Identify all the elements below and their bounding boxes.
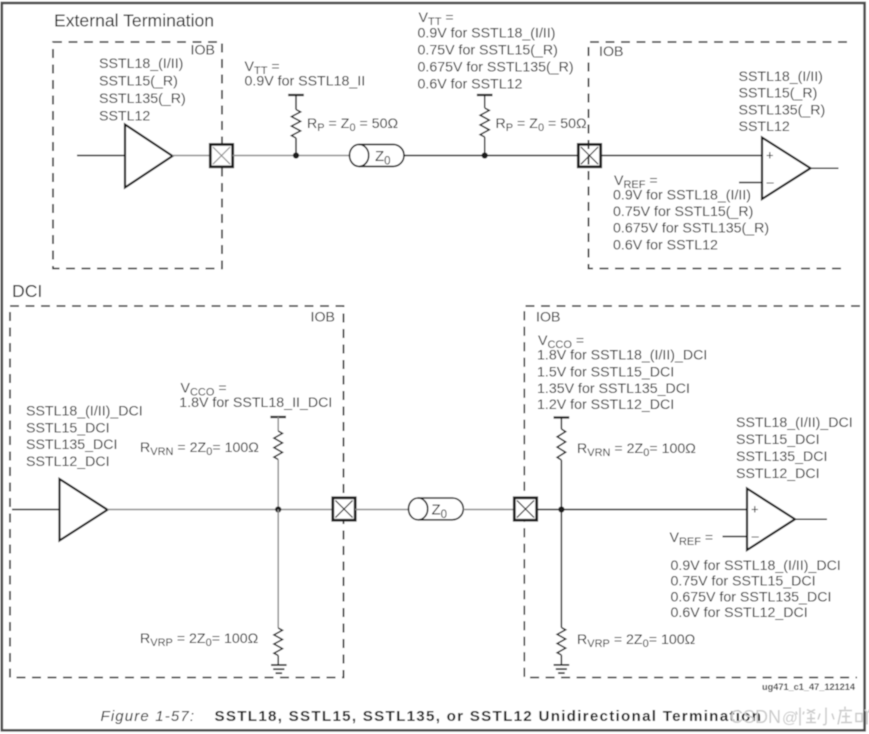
- input receiver buffer (DCI): [747, 489, 795, 551]
- wire: DCI driver input: [12, 509, 60, 511]
- IOB box (receiver, external termination): [589, 42, 848, 269]
- svg-text:+: +: [766, 148, 774, 163]
- wire: RVRP to ground (left): [277, 656, 279, 666]
- wire: node down to RVRP (right): [560, 510, 562, 628]
- resistor RP (left pull-up): [292, 110, 301, 139]
- svg-text:0.675V for SSTL135(_R): 0.675V for SSTL135(_R): [613, 221, 769, 237]
- IOB box (driver, DCI): [10, 306, 344, 678]
- ground (left DCI): [271, 664, 287, 666]
- wire: VCCO rail to RVRN (right): [560, 418, 562, 430]
- output driver buffer (DCI): [60, 479, 108, 541]
- VCCO rail (right DCI): [554, 416, 570, 418]
- svg-text:SSTL18_(I/II): SSTL18_(I/II): [99, 56, 183, 72]
- svg-text:SSTL135(_R): SSTL135(_R): [739, 103, 826, 119]
- VCCO rail (left DCI): [270, 416, 286, 418]
- pad (DCI receiver IOB): [514, 498, 536, 520]
- transmission line Z0 (bottom): [418, 498, 463, 520]
- wire: VREF stub to minus input (DCI): [723, 536, 748, 538]
- wire: resistor RP to line node: [295, 138, 297, 156]
- svg-text:+: +: [751, 502, 759, 517]
- svg-text:IOB: IOB: [311, 310, 335, 326]
- svg-text:SSTL12: SSTL12: [99, 109, 150, 125]
- svg-text:IOB: IOB: [599, 44, 623, 60]
- wire: pad to receiver input: [601, 155, 762, 157]
- svg-text:0.9V for SSTL18_(I/II)_DCI: 0.9V for SSTL18_(I/II)_DCI: [671, 558, 841, 574]
- resistor RP (right pull-up): [480, 108, 489, 137]
- wire: VTT rail to resistor RP (right): [484, 95, 486, 108]
- svg-text:1.5V for SSTL15_DCI: 1.5V for SSTL15_DCI: [537, 365, 674, 381]
- pad (driver IOB): [210, 144, 232, 166]
- input receiver buffer (top): [762, 138, 811, 200]
- watermark glyph 小: [818, 708, 834, 725]
- svg-text:Figure 1-57:: Figure 1-57:: [101, 708, 196, 725]
- svg-text:SSTL12_DCI: SSTL12_DCI: [26, 454, 110, 470]
- svg-text:DCI: DCI: [12, 281, 42, 301]
- svg-text:ug471_c1_47_121214: ug471_c1_47_121214: [762, 682, 856, 692]
- wire: driver input: [77, 155, 125, 157]
- wire: VCCO rail to RVRN (left): [277, 417, 279, 431]
- svg-text:0.675V for SSTL135(_R): 0.675V for SSTL135(_R): [418, 60, 574, 76]
- svg-text:SSTL15_DCI: SSTL15_DCI: [736, 432, 820, 448]
- wire: receiver output (DCI): [795, 518, 827, 520]
- wire: DCI buffer output to node: [108, 509, 334, 511]
- svg-text:–: –: [767, 175, 775, 190]
- node: DCI receiver split junction: [558, 506, 564, 512]
- output driver buffer (External Termination): [125, 125, 173, 188]
- wire: node down to RVRP (left): [277, 510, 279, 629]
- watermark glyph 庄: [838, 707, 852, 725]
- svg-text:0.9V for SSTL18_II: 0.9V for SSTL18_II: [245, 74, 366, 90]
- wire: receiver output (top): [811, 167, 839, 169]
- wire: VREF stub to minus input: [739, 182, 762, 184]
- wire: pad to receiver (bottom main): [537, 509, 747, 511]
- svg-text:SSTL15(_R): SSTL15(_R): [99, 74, 178, 90]
- svg-text:SSTL18_(I/II)_DCI: SSTL18_(I/II)_DCI: [736, 415, 853, 431]
- svg-text:1.8V for SSTL18_II_DCI: 1.8V for SSTL18_II_DCI: [179, 395, 332, 411]
- wire: RVRN to node (left DCI): [277, 460, 279, 510]
- transmission line Z0 (top): [359, 144, 404, 166]
- pad (receiver IOB, top): [578, 144, 600, 166]
- svg-text:0.75V for SSTL15_DCI: 0.75V for SSTL15_DCI: [671, 574, 816, 590]
- svg-text:0.9V for SSTL18_(I/II): 0.9V for SSTL18_(I/II): [613, 188, 751, 204]
- svg-text:External Termination: External Termination: [54, 11, 214, 31]
- svg-text:SSTL18, SSTL15, SSTL135, or SS: SSTL18, SSTL15, SSTL135, or SSTL12 Unidi…: [215, 708, 763, 725]
- resistor RVRP (right DCI): [557, 628, 565, 656]
- svg-text:SSTL135_DCI: SSTL135_DCI: [736, 449, 827, 465]
- svg-text:SSTL135(_R): SSTL135(_R): [99, 91, 186, 107]
- svg-text:0.6V for SSTL12_DCI: 0.6V for SSTL12_DCI: [671, 605, 808, 621]
- IOB box (driver, external termination): [53, 42, 222, 269]
- svg-text:1.8V for SSTL18_(I/II)_DCI: 1.8V for SSTL18_(I/II)_DCI: [537, 348, 707, 364]
- svg-text:IOB: IOB: [191, 43, 215, 59]
- svg-text:0.675V for SSTL135_DCI: 0.675V for SSTL135_DCI: [671, 589, 832, 605]
- wire: resistor to node (right): [484, 137, 486, 156]
- wire: pad to termination node: [233, 155, 350, 157]
- node: DCI driver split junction: [275, 506, 281, 512]
- wire: Z0 to right termination node: [404, 155, 579, 157]
- svg-text:0.75V for SSTL15(_R): 0.75V for SSTL15(_R): [613, 204, 753, 220]
- watermark glyph 怪: [796, 708, 816, 726]
- svg-text:IOB: IOB: [536, 310, 560, 326]
- pad (DCI driver IOB): [333, 498, 355, 520]
- watermark glyph 吖: [856, 710, 869, 725]
- wire: RVRN to node (right DCI): [560, 460, 562, 510]
- ground (right DCI): [554, 664, 570, 666]
- resistor RVRP (left DCI): [274, 628, 282, 656]
- wire: Z0 to receiver pad (bottom): [463, 509, 514, 511]
- svg-text:CSDN: CSDN: [730, 707, 781, 727]
- node: right termination junction: [482, 152, 488, 158]
- svg-text:@: @: [782, 710, 798, 727]
- wire: VTT rail to resistor RP: [295, 95, 297, 110]
- svg-text:SSTL18_(I/II)_DCI: SSTL18_(I/II)_DCI: [26, 404, 143, 420]
- svg-text:SSTL135_DCI: SSTL135_DCI: [26, 437, 117, 453]
- IOB box (receiver, DCI): [524, 306, 860, 678]
- svg-text:0.6V for SSTL12: 0.6V for SSTL12: [613, 238, 718, 254]
- svg-text:1.35V for SSTL135_DCI: 1.35V for SSTL135_DCI: [537, 381, 690, 397]
- VTT rail (left): [288, 94, 304, 96]
- svg-text:SSTL15(_R): SSTL15(_R): [739, 86, 818, 102]
- svg-text:SSTL12_DCI: SSTL12_DCI: [736, 466, 820, 482]
- svg-text:–: –: [752, 529, 760, 544]
- svg-text:1.2V for SSTL12_DCI: 1.2V for SSTL12_DCI: [537, 397, 674, 413]
- svg-text:SSTL12: SSTL12: [739, 119, 790, 135]
- svg-text:SSTL18_(I/II): SSTL18_(I/II): [739, 69, 823, 85]
- wire: RVRP to ground (right): [560, 655, 562, 665]
- svg-text:SSTL15_DCI: SSTL15_DCI: [26, 420, 110, 436]
- svg-text:0.6V for SSTL12: 0.6V for SSTL12: [418, 77, 523, 93]
- VTT rail (right): [477, 94, 493, 96]
- svg-text:0.75V for SSTL15(_R): 0.75V for SSTL15(_R): [418, 43, 558, 59]
- wire: DCI pad to Z0: [355, 509, 408, 511]
- wire: buffer output to pad: [173, 155, 211, 157]
- resistor RVRN (right DCI): [557, 429, 565, 460]
- resistor RVRN (left DCI): [274, 431, 282, 460]
- svg-text:0.9V for SSTL18_(I/II): 0.9V for SSTL18_(I/II): [418, 26, 556, 42]
- node: left termination junction: [293, 152, 299, 158]
